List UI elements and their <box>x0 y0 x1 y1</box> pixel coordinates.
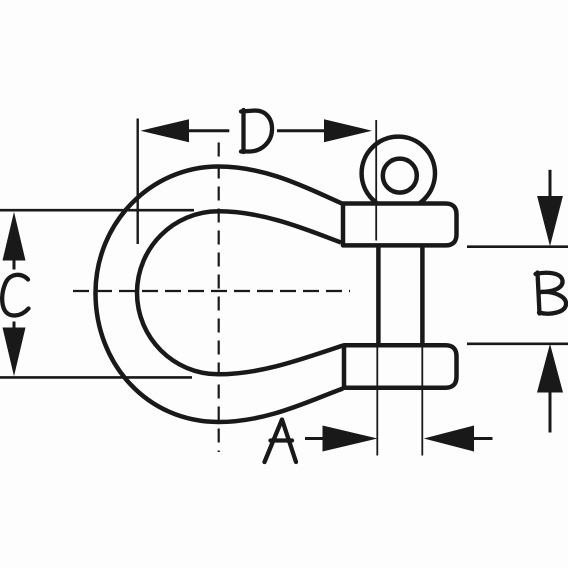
bow outer outline <box>96 167 344 423</box>
pin head inner circle <box>383 159 417 193</box>
top lug (pin boss) <box>343 204 457 246</box>
dimension B arrow down <box>537 196 563 246</box>
pin head outer circle <box>362 137 435 210</box>
dimension A arrow right-pointing <box>323 426 378 452</box>
dimension A arrow left-pointing <box>424 426 474 452</box>
dimension A tail left <box>305 437 323 440</box>
dimension C arrow up <box>3 212 26 261</box>
centerline horizontal (bow axis) <box>73 290 350 292</box>
dimension D arrow right <box>324 119 372 142</box>
dimension B tail bottom <box>549 393 552 433</box>
pin shaft left line <box>376 246 381 345</box>
dimension A extension line left <box>376 346 378 456</box>
dimension B tail top <box>549 170 552 196</box>
dimension C tail bottom <box>13 322 16 329</box>
dimension D arrow left <box>141 119 190 142</box>
label B <box>536 273 567 314</box>
dimension C extension line bottom <box>0 376 192 379</box>
dimension C tail top <box>13 260 16 270</box>
label C <box>2 275 28 316</box>
dimension D line left <box>189 129 229 132</box>
dimension C arrow down <box>3 328 26 377</box>
bow inner outline <box>137 211 343 374</box>
dimension B extension line top <box>467 245 568 248</box>
centerline vertical (bow axis) <box>218 143 220 453</box>
dimension A tail right <box>474 437 493 440</box>
dimension D extension line left <box>136 119 138 245</box>
dimension B extension line bottom <box>467 342 568 345</box>
dimension A extension line right <box>421 346 423 456</box>
bottom lug <box>344 345 457 387</box>
dimension D extension line right <box>375 120 377 241</box>
dimension B arrow up <box>537 344 563 393</box>
dimension C extension line top <box>0 209 194 212</box>
label D <box>241 110 272 152</box>
label A <box>265 420 297 463</box>
dimension D line right <box>277 129 324 132</box>
pin shaft right line <box>420 246 425 345</box>
